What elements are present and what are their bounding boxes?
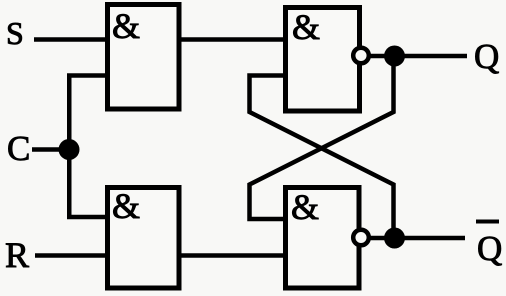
svg-text:&: & — [112, 186, 140, 226]
wire: U3 output to U4 pin 2 — [179, 253, 287, 258]
wire: S input to gate U1 pin 1 — [34, 37, 107, 42]
inversion bubble on U2 output — [353, 48, 369, 64]
wire: C branch (up to U1 pin 2, down to U3 pin 2) — [69, 76, 106, 218]
AND gate U1 body — [108, 5, 180, 110]
svg-text:S: S — [6, 15, 24, 51]
wire: node QB to output Q-bar — [361, 236, 465, 241]
NAND gate U2 body — [286, 8, 360, 112]
wire: R input to gate U3 pin 1 — [35, 253, 107, 258]
svg-text:&: & — [112, 6, 140, 46]
AND gate U3 body — [108, 188, 180, 289]
wire: node Q to output Q — [361, 54, 467, 59]
wire: C input stub — [32, 147, 69, 152]
overbar of Q-bar — [476, 220, 499, 224]
junction node C — [59, 139, 80, 160]
wire: feedback from node QB up to U2 pin 2 (cross diagonal) — [250, 76, 394, 233]
svg-text:R: R — [5, 235, 29, 275]
junction node Q — [384, 46, 405, 67]
svg-text:&: & — [291, 187, 319, 227]
inversion bubble on U4 output — [353, 230, 369, 246]
NAND gate U4 body — [286, 188, 360, 289]
svg-text:&: & — [292, 7, 320, 47]
wire: U1 output to U2 pin 1 — [179, 37, 287, 42]
svg-text:Q: Q — [477, 229, 502, 268]
junction node QB — [384, 228, 405, 249]
svg-text:C: C — [7, 129, 30, 168]
wire: feedback from node Q down to U4 pin 1 (cross diagonal) — [250, 60, 394, 219]
svg-text:Q: Q — [474, 37, 499, 76]
